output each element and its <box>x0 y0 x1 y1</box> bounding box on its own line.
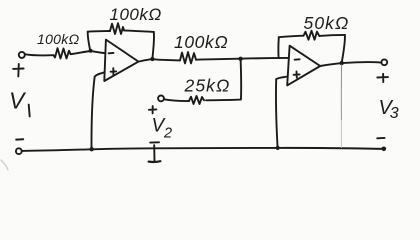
terminal V3 plus <box>381 59 387 65</box>
wire V1 to R1 <box>25 54 53 55</box>
wire feedback F2 up-left <box>277 37 279 58</box>
svg-text:100kΩ: 100kΩ <box>37 31 80 47</box>
ground bar <box>149 160 161 163</box>
plus sign V1 <box>13 64 24 76</box>
terminal V3 minus dot <box>382 147 387 152</box>
wire node D to V3 terminal <box>342 62 381 63</box>
node D <box>340 61 344 65</box>
svg-text:100kΩ: 100kΩ <box>110 5 162 24</box>
label R1 100k <box>37 31 80 47</box>
wire node B to R3 <box>152 59 180 60</box>
wire U1 output <box>139 59 153 62</box>
minus sign V1 <box>16 138 23 140</box>
wire U1 noninverting stub <box>95 72 105 76</box>
resistor R1 <box>54 48 71 58</box>
wire feedback F2 down to node D <box>342 35 345 63</box>
label V1 subscript stroke <box>29 105 30 117</box>
node C <box>238 57 242 61</box>
wire bottom rail <box>22 148 384 151</box>
label V1 <box>9 88 27 114</box>
wire node C to U2 inverting input <box>241 57 289 60</box>
corner smudge <box>1 160 8 170</box>
label V3 <box>379 97 399 122</box>
svg-text:3: 3 <box>390 105 399 122</box>
wire feedback F2 top-left <box>279 36 304 38</box>
op-amp U2 <box>287 46 320 86</box>
wire U2 noninverting stub <box>276 77 287 80</box>
wire R4 right and up to node C <box>206 59 241 100</box>
svg-text:50kΩ: 50kΩ <box>304 13 350 33</box>
label R5 50k <box>304 13 350 33</box>
minus sign V2 <box>150 141 159 143</box>
plus sign V3 <box>377 74 388 82</box>
terminal V1 plus <box>19 52 25 58</box>
label R2 100k <box>110 5 162 24</box>
label R3 100k <box>174 32 228 52</box>
junction dot rail-mid <box>276 146 280 150</box>
resistor R2 feedback <box>110 23 124 34</box>
wire U1 plus input down to rail <box>91 77 94 149</box>
svg-text:25kΩ: 25kΩ <box>184 76 231 96</box>
U2 plus sign <box>294 72 300 78</box>
wire node D down to rail (faint) <box>340 65 342 120</box>
wire U2 plus input down to rail <box>276 79 278 148</box>
wire R1 to node A <box>71 51 91 54</box>
terminal V1 minus <box>16 148 22 154</box>
plus sign V2 <box>149 106 157 113</box>
U1 minus sign <box>109 52 114 54</box>
wire feedback F2 top-right <box>319 35 345 36</box>
wire feedback F1 down to node B <box>152 32 154 59</box>
label R4 25k <box>184 76 231 96</box>
wire feedback F1 top-right <box>124 30 154 32</box>
U2 minus sign <box>295 58 300 60</box>
svg-text:2: 2 <box>163 125 172 141</box>
label V2 <box>152 116 173 142</box>
minus sign V3 <box>377 137 384 139</box>
node B <box>150 57 154 61</box>
node A <box>89 49 93 53</box>
resistor R3 <box>180 52 196 63</box>
wire feedback F1 top-left <box>88 30 110 33</box>
junction dot rail-left <box>90 147 94 151</box>
wire R3 to node C <box>196 59 241 60</box>
ground stem <box>153 145 155 161</box>
wire U2 output <box>320 63 342 66</box>
svg-text:V: V <box>9 88 27 114</box>
U1 plus sign <box>111 68 117 75</box>
svg-text:100kΩ: 100kΩ <box>174 32 228 52</box>
resistor R4 25k <box>189 96 204 104</box>
resistor R5 50k <box>304 31 320 40</box>
op-amp U1 <box>104 40 138 81</box>
wire V2 to R4 <box>164 99 189 101</box>
wire node A to U1 inverting input <box>91 51 105 53</box>
wire feedback F1 up-left <box>88 32 91 51</box>
terminal V2 <box>158 96 164 102</box>
